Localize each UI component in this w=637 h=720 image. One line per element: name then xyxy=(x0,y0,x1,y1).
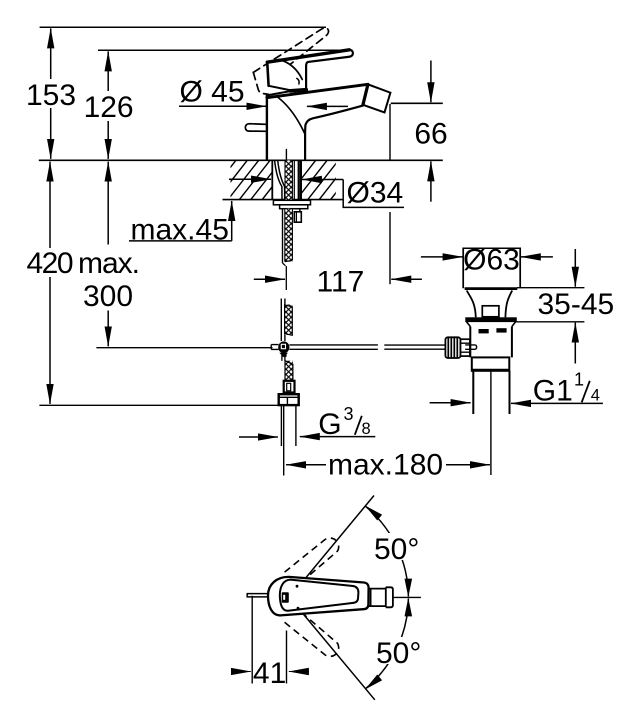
supply pipe lines below nut xyxy=(281,405,296,446)
dimension Ø63 horizontal xyxy=(421,256,553,258)
faucet lever blade tip and underside xyxy=(306,50,353,90)
drain cap bottom thick line xyxy=(465,287,518,290)
svg-text:Ø63: Ø63 xyxy=(463,244,520,277)
shank tube line xyxy=(293,160,295,199)
swivel range diagonals 50 degrees xyxy=(290,496,375,700)
svg-text:50°: 50° xyxy=(374,533,419,566)
svg-text:117: 117 xyxy=(316,266,364,299)
pop-up rod ball joint xyxy=(278,341,289,357)
label 117 xyxy=(315,266,366,299)
top view centerline xyxy=(393,596,421,598)
svg-text:max.: max. xyxy=(78,247,140,280)
G3/8 connection nut xyxy=(279,394,299,405)
rod collar into drain xyxy=(461,339,470,356)
wire: top reference line (lever raised height) xyxy=(40,26,326,28)
label max.180 xyxy=(327,448,445,481)
dimension max.180 horizontal xyxy=(284,372,491,476)
svg-text:300: 300 xyxy=(83,280,133,313)
dimension max.45 leader with up arrow xyxy=(129,201,232,241)
braided hose upper segment below nut xyxy=(283,209,293,266)
faucet lever heel bottom edge xyxy=(269,86,291,91)
label 50 degrees lower xyxy=(375,637,427,670)
dimension G1 1/4 leader arrows xyxy=(430,402,603,405)
swivel arc lower with arrows xyxy=(365,599,408,689)
hose curved pair in hole xyxy=(275,160,285,199)
svg-text:Ø34: Ø34 xyxy=(347,176,404,209)
label Ø63 xyxy=(463,244,520,277)
svg-text:max.45: max.45 xyxy=(131,214,229,247)
label max. 300 xyxy=(78,247,140,313)
wire: bottom reference line (420 depth) xyxy=(39,404,278,406)
label 50 degrees upper xyxy=(373,533,425,566)
svg-text:35-45: 35-45 xyxy=(538,288,615,321)
dimension 66 vertical xyxy=(430,61,432,202)
label 420 xyxy=(27,247,75,280)
svg-text:420: 420 xyxy=(27,247,74,280)
dimension Ø34 arrows in counter + leader box xyxy=(229,179,404,207)
drain tailpipe walls xyxy=(473,371,509,414)
hose end nipple xyxy=(284,381,295,393)
drain lift knob square xyxy=(482,306,499,317)
svg-text:G: G xyxy=(318,408,341,441)
svg-text:50°: 50° xyxy=(376,637,421,670)
svg-text:41: 41 xyxy=(253,657,286,690)
label G 3/8 xyxy=(318,404,370,441)
top view left tab (temperature stop) xyxy=(247,594,268,597)
dimension Ø45 horizontal leader lines xyxy=(179,105,348,107)
svg-text:1: 1 xyxy=(574,370,584,390)
top view logo rectangle xyxy=(282,592,289,602)
top view detail dots xyxy=(296,585,299,588)
rod pin inside drain xyxy=(465,345,477,349)
drain flange end bevels xyxy=(467,322,516,327)
counter hatching right block xyxy=(285,160,373,199)
counter hatching left block xyxy=(205,160,304,199)
braided hose band in hole xyxy=(285,160,292,199)
faucet spout deck top edge xyxy=(267,84,368,97)
drain flange thick bar xyxy=(466,318,516,322)
rod knurled adjuster nut xyxy=(445,337,460,358)
swivel lever lower dashed position xyxy=(285,614,339,657)
dimension 153 vertical xyxy=(50,28,52,159)
braided hose middle segment xyxy=(285,305,293,336)
faucet lever blade top edge xyxy=(267,50,349,62)
counter hole left edge xyxy=(271,160,273,199)
counter hole right edge xyxy=(300,160,302,199)
faucet dome hook detail xyxy=(297,78,299,84)
svg-text:4: 4 xyxy=(591,386,600,404)
drain cap top line xyxy=(463,247,520,249)
dimension 117 horizontal xyxy=(254,104,422,284)
faucet lever heel left edge xyxy=(267,62,268,86)
top view lever inner outline xyxy=(280,580,359,611)
svg-text:153: 153 xyxy=(26,79,76,112)
top view outer body (white fill covers dashes) xyxy=(268,577,369,616)
wire: spout outlet height reference line xyxy=(391,102,443,104)
drain cap side walls xyxy=(463,248,520,289)
shank securing screw block xyxy=(294,212,301,222)
svg-text:66: 66 xyxy=(414,118,447,151)
svg-text:8: 8 xyxy=(362,420,371,438)
pop-up rod stub left of ball xyxy=(271,345,278,350)
top view spout end cap xyxy=(386,587,393,607)
drain lower collar xyxy=(472,357,510,370)
drain bell taper xyxy=(467,291,513,318)
faucet pop-up knob xyxy=(245,124,267,132)
svg-text:Ø 45: Ø 45 xyxy=(180,75,245,108)
dimension G3/8 arrows xyxy=(239,436,375,438)
swivel arc upper with arrows xyxy=(365,506,408,596)
dimension 41 arrows xyxy=(234,671,251,673)
drain body slots xyxy=(479,329,489,333)
label 126 xyxy=(84,91,134,124)
faucet spout end face thick line xyxy=(363,85,368,104)
horizontal pop-up rod to drain (with break) xyxy=(289,345,445,349)
faucet lever joint thick band xyxy=(291,90,307,91)
label 153 xyxy=(26,79,76,112)
wire: counter bottom line xyxy=(223,199,343,201)
svg-text:max.180: max.180 xyxy=(328,448,443,481)
faucet body left edge xyxy=(266,95,268,159)
dimension max.300 vertical xyxy=(107,162,109,347)
top view spout neck xyxy=(369,587,386,607)
pop-up rod vertical pair xyxy=(281,299,285,342)
wire: pop-up rod extension line (max.300 reference) xyxy=(96,347,272,349)
svg-text:3: 3 xyxy=(344,404,354,424)
faucet lever raised position (dashed) xyxy=(253,28,328,95)
faucet body top edge xyxy=(267,91,291,95)
label Ø34 xyxy=(345,176,403,209)
wire: counter top surface line xyxy=(39,159,443,161)
hose centerline break xyxy=(285,266,287,290)
wire: second reference line (lever height 126) xyxy=(98,49,352,51)
dimension 35-45 vertical xyxy=(516,249,584,364)
faucet shank line inside body xyxy=(285,150,287,160)
dimension 420 vertical xyxy=(49,162,51,404)
label G1 1/4 xyxy=(533,370,600,408)
mounting washer under counter xyxy=(273,200,310,205)
faucet spout-body fillet curve xyxy=(277,97,305,134)
faucet aerator square tip xyxy=(363,85,390,113)
mounting nut under washer xyxy=(280,205,308,209)
faucet cartridge dome curve xyxy=(279,60,302,80)
dimension 126 vertical xyxy=(107,51,109,158)
faucet spout underside curve xyxy=(305,106,363,160)
svg-text:G1: G1 xyxy=(533,374,573,407)
dimension 41 extension lines xyxy=(252,596,286,684)
drain body xyxy=(470,327,512,358)
braided hose lower segment below ball xyxy=(282,353,293,381)
threaded stud dark strip xyxy=(298,160,300,199)
svg-text:126: 126 xyxy=(84,91,134,124)
swivel lever upper dashed position xyxy=(285,538,339,581)
